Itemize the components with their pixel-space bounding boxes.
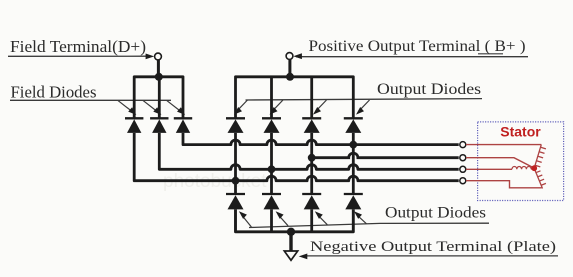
wire: phase C line (field diode FD1 to stator lead 4, hops cols 2,3,4) <box>134 133 459 181</box>
field diode FD3 <box>174 118 192 133</box>
svg-text:Field Diodes: Field Diodes <box>11 83 97 102</box>
output diode OD3 (positive bank, col 3) <box>302 118 321 133</box>
svg-text:Output Diodes: Output Diodes <box>385 205 486 222</box>
wire: middle field column drop <box>158 77 161 119</box>
stator terminal circle 3 <box>460 166 466 172</box>
svg-text:Negative Output Terminal (Plat: Negative Output Terminal (Plate) <box>310 239 556 255</box>
terminal B+ circle <box>286 53 293 60</box>
output diode OD8 (negative bank, col 4) <box>344 194 363 209</box>
wire: column 2 mid vertical <box>270 133 273 194</box>
stator terminal circle 2 <box>460 155 466 161</box>
wire: column 1 mid vertical <box>234 133 237 194</box>
stator winding: phase B red lead with loop coil <box>466 166 534 169</box>
wire: column 2 drop to bottom bus <box>270 209 273 231</box>
svg-text:Field Terminal(D+): Field Terminal(D+) <box>10 37 146 56</box>
stator terminal circle 4 <box>460 178 466 184</box>
stator winding: coil 2 (lower diagonal, hatched) <box>535 169 546 189</box>
junction dot: neutral to column 3 <box>308 154 316 162</box>
junction dot: phase B to column 2 <box>268 165 276 173</box>
label "Negative Output Terminal (Plate)" <box>299 239 558 259</box>
junction dot: field bus at D+ <box>155 73 163 81</box>
wire: phase A line (field diode FD3 to stator lead 1, hops cols 1-3) <box>183 133 459 145</box>
wire: field diode top bus with end drops <box>134 77 183 119</box>
field diode FD1 <box>125 118 143 133</box>
wire: D+ stub down to field bus <box>157 60 160 78</box>
wire: column 3 mid vertical <box>310 133 313 194</box>
output diode OD5 (negative bank, col 1) <box>226 194 245 209</box>
wire: column 4 mid vertical <box>352 133 355 194</box>
output diode OD6 (negative bank, col 2) <box>262 194 281 209</box>
stator winding: phase C red lead (stepped) <box>466 181 542 188</box>
wire: bottom bus with end rises <box>236 209 354 231</box>
wire: column 3 drop to bottom bus <box>310 209 313 231</box>
wire: phase B line (field diode FD2 to stator lead 3, hops cols 1,3,4) <box>159 133 458 169</box>
wire: negative terminal stub <box>289 232 292 251</box>
output diode OD4 (positive bank, col 4) <box>344 118 363 133</box>
svg-text:Stator: Stator <box>500 124 541 140</box>
stator winding: coil 1 (upper diagonal, hatched) <box>534 145 546 168</box>
label "Positive Output Terminal ( B+ )" <box>293 38 528 59</box>
stator box <box>478 122 564 201</box>
wire: column 2 drop from top bus <box>270 77 273 119</box>
output diode OD1 (positive bank, col 1) <box>226 118 245 133</box>
label "Output Diodes" (top) with leader and 4 arrows <box>234 81 482 115</box>
label "Output Diodes" (bottom) with leader and 4 arrows <box>239 205 489 228</box>
stator terminal circle 1 <box>460 142 466 148</box>
wire: neutral line (column 3 to stator lead 2, hops col 4) <box>312 153 459 158</box>
stator winding: neutral red lead to star point <box>466 158 534 168</box>
wire: main rectifier top bus with end drops <box>236 77 354 119</box>
svg-text:Positive Output Terminal ( B+: Positive Output Terminal ( B+ ) <box>309 38 526 55</box>
label "Field Terminal(D+)" <box>8 37 154 59</box>
junction dot: main bus at B+ <box>286 73 294 81</box>
junction dot: bottom bus at negative stub <box>287 228 295 236</box>
stator winding: phase A red lead <box>466 144 541 146</box>
svg-text:Output Diodes: Output Diodes <box>377 81 481 98</box>
wire: column 3 drop from top bus <box>310 77 313 119</box>
output diode OD2 (positive bank, col 2) <box>262 118 281 133</box>
output diode OD7 (negative bank, col 3) <box>302 194 321 209</box>
wire: B+ stub down to main bus <box>288 60 291 78</box>
negative terminal symbol (open triangle) <box>284 251 297 260</box>
junction dot: phase C to column 1 <box>232 177 240 185</box>
stator star point dot <box>531 165 537 171</box>
label "Field Diodes" with leader and 3 arrows <box>10 83 185 115</box>
junction dot: phase A to column 4 <box>349 141 357 149</box>
terminal D+ circle <box>155 53 162 60</box>
field diode FD2 <box>150 118 168 133</box>
